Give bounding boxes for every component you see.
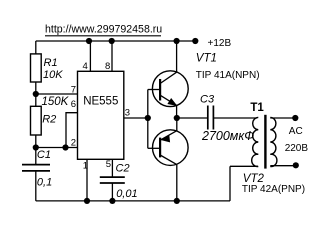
- transistor Q1 VT1 circle: [152, 71, 188, 107]
- svg-text:8: 8: [105, 61, 110, 72]
- svg-text:R1: R1: [44, 57, 58, 69]
- capacitor C1: [22, 165, 50, 171]
- node dot R2-C1-pin2: [33, 144, 39, 150]
- svg-text:AC: AC: [289, 126, 303, 137]
- wire R2 to C1: [35, 135, 37, 164]
- capacitor C2: [100, 177, 125, 183]
- wire VT2 collector down to ground: [176, 165, 178, 201]
- svg-text:2: 2: [71, 137, 76, 148]
- op-amp U1 IC NE555 body: [78, 71, 124, 159]
- svg-text:0,01: 0,01: [116, 188, 137, 200]
- svg-text:2700мкФ: 2700мкФ: [201, 129, 254, 143]
- wire base riser between VT1 and VT2 bases: [147, 90, 149, 149]
- wire pin 2: [36, 147, 78, 149]
- svg-text:6: 6: [71, 99, 76, 110]
- wire left column top to R1: [35, 41, 37, 54]
- resistor R1: [31, 54, 42, 82]
- wire output node to C3: [177, 117, 207, 119]
- wire pin 3: [124, 117, 148, 119]
- wire pin 8: [111, 41, 113, 71]
- wire VT1 collector up to rail: [176, 41, 178, 72]
- node dot pin6-pin2 junction: [62, 144, 68, 150]
- wire VT1 base stub: [148, 89, 160, 91]
- wire secondary bottom lead: [270, 165, 296, 167]
- svg-text:TIP 42A(PNP): TIP 42A(PNP): [242, 184, 305, 195]
- node dot AC terminal bottom: [293, 162, 299, 168]
- wire pin 4: [89, 41, 91, 71]
- wire ground rail: [36, 200, 230, 202]
- wire VT1 emitter down to output node: [176, 105, 178, 118]
- svg-text:+12В: +12В: [208, 38, 232, 49]
- wire transformer return horizontal: [230, 165, 258, 167]
- svg-text:5: 5: [106, 159, 111, 170]
- transformer T1 core: [264, 115, 266, 169]
- svg-text:NE555: NE555: [83, 96, 118, 108]
- svg-text:150K: 150K: [42, 96, 70, 108]
- svg-text:R2: R2: [42, 114, 56, 126]
- node dot R1-R2-pin7: [33, 91, 39, 97]
- transistor VT1 collector arm: [160, 72, 177, 83]
- svg-text:C2: C2: [116, 163, 130, 175]
- node dot ground-C2: [109, 198, 115, 204]
- transistor VT2 collector arm: [160, 155, 177, 165]
- node dot rail-pin4: [86, 38, 92, 44]
- svg-text:TIP 41A(NPN): TIP 41A(NPN): [196, 70, 260, 81]
- wire pin 1: [86, 159, 88, 201]
- wire VT2 base stub: [148, 147, 160, 149]
- wire secondary top lead: [270, 117, 295, 119]
- svg-text:4: 4: [83, 61, 88, 72]
- svg-text:1: 1: [83, 161, 88, 172]
- wire pin 7: [36, 93, 78, 95]
- wire C2 to ground rail: [111, 183, 113, 201]
- svg-text:10K: 10K: [43, 69, 63, 81]
- transformer T1 secondary winding: [270, 117, 277, 166]
- node dot pin3 base junction: [145, 115, 151, 121]
- svg-text:220В: 220В: [285, 143, 309, 154]
- node dot rail-VT1 collector: [174, 38, 180, 44]
- svg-text:http://www.299792458.ru: http://www.299792458.ru: [45, 24, 162, 36]
- wire pin 5 to C2: [111, 159, 113, 177]
- wire C3 to transformer primary: [214, 117, 257, 119]
- wire top +12V rail: [36, 40, 196, 42]
- transistor VT2 emitter arm: [160, 131, 177, 141]
- transistor VT2 emitter arrow: [161, 136, 169, 142]
- svg-text:VT1: VT1: [196, 52, 217, 64]
- node dot rail-pin8: [109, 38, 115, 44]
- svg-text:C3: C3: [200, 93, 215, 105]
- capacitor C3: [208, 106, 214, 130]
- node dot ground-VT2 collector: [174, 198, 180, 204]
- wire URL underline: [45, 35, 161, 37]
- wire R1 to R2: [35, 82, 37, 106]
- svg-text:0,1: 0,1: [37, 177, 52, 189]
- wire transformer return riser: [229, 166, 231, 201]
- svg-text:T1: T1: [250, 102, 264, 114]
- svg-text:7: 7: [71, 85, 76, 96]
- resistor R2: [31, 106, 42, 135]
- transformer T1 primary winding: [252, 117, 259, 166]
- transistor VT1 emitter arrow: [168, 99, 176, 105]
- transistor VT2 base bar: [159, 138, 161, 158]
- node dot emitters output junction: [174, 115, 180, 121]
- node dot +12V terminal: [192, 38, 198, 44]
- transistor VT1 base bar: [159, 79, 161, 101]
- node dot ground-pin1: [84, 198, 90, 204]
- svg-text:C1: C1: [37, 149, 51, 161]
- wire VT2 emitter from output node: [176, 118, 178, 131]
- wire C1 to ground rail: [35, 171, 37, 201]
- transistor VT1 emitter arm: [160, 95, 177, 105]
- wire pin 6 stub and riser: [66, 113, 78, 148]
- svg-text:3: 3: [125, 108, 130, 119]
- node dot AC terminal top: [292, 115, 298, 121]
- transistor Q2 VT2 circle: [153, 130, 189, 166]
